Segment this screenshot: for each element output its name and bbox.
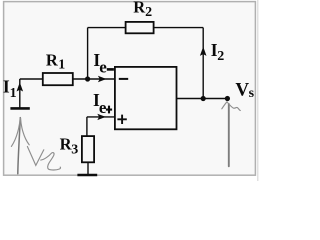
svg-text:1: 1: [58, 58, 65, 73]
node junction feedback/R1: [85, 76, 90, 81]
svg-text:2: 2: [145, 5, 152, 20]
svg-text:R: R: [46, 50, 59, 69]
wire non-inverting input: [87, 116, 115, 118]
wire R3 top: [86, 117, 88, 136]
op-amp U1: [115, 67, 177, 129]
svg-text:3: 3: [71, 143, 78, 158]
annotation handwritten V of Ve: [27, 147, 43, 166]
wire I1 stub: [19, 79, 21, 108]
arrow Ie+: [97, 114, 106, 120]
annotation handwritten e of Ve: [41, 153, 61, 170]
wire feedback down: [202, 28, 204, 99]
right edge faint line: [257, 0, 259, 181]
node junction feedback/output: [201, 96, 206, 101]
op-amp minus input sign: [119, 78, 128, 80]
annotation arrow Vs head: [222, 102, 241, 111]
wire feedback top: [88, 27, 204, 29]
svg-text:2: 2: [217, 49, 224, 64]
resistor R1: [43, 73, 73, 85]
frame border: [4, 2, 256, 176]
svg-text:s: s: [249, 86, 255, 101]
label Ie+ subscript plus: [106, 106, 112, 114]
ground I1: [10, 107, 29, 110]
label Ie- subscript minus: [107, 68, 114, 71]
svg-text:e: e: [99, 98, 107, 117]
arrow I2: [200, 47, 207, 56]
arrow Ie-: [98, 76, 107, 82]
wire output: [177, 98, 228, 100]
svg-text:1: 1: [10, 86, 17, 101]
wire feedback up: [87, 28, 89, 79]
resistor R3: [82, 136, 94, 162]
svg-text:V: V: [235, 80, 249, 101]
wire main input: [20, 78, 115, 80]
annotation arrow Ve right barb: [21, 118, 30, 145]
ground R3: [77, 174, 97, 177]
op-amp plus input sign: [117, 115, 126, 124]
node Vs: [225, 96, 230, 101]
annotation arrow Vs shaft: [228, 104, 230, 166]
resistor R2: [126, 22, 154, 33]
svg-text:e: e: [99, 57, 107, 76]
annotation arrow Ve left barb: [11, 118, 20, 146]
wire R3 bottom: [87, 162, 89, 175]
arrow I1: [17, 82, 24, 91]
annotation arrow Ve shaft: [18, 118, 21, 174]
